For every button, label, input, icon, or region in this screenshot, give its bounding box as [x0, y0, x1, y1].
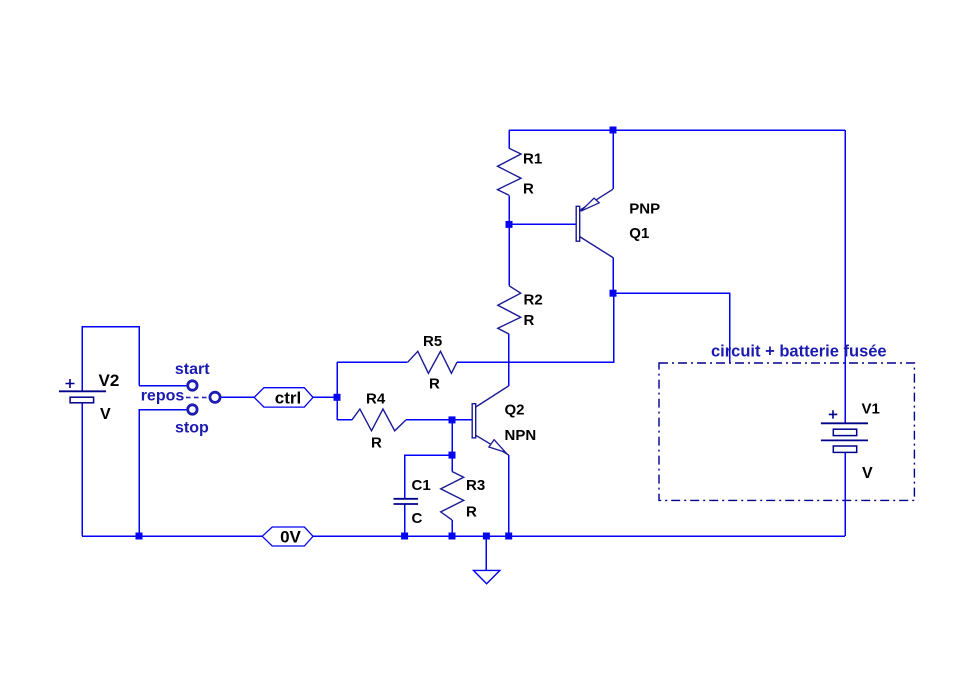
wire C1 top branch: [405, 455, 452, 498]
label Q2 type NPN: [505, 427, 537, 444]
ground: [474, 570, 500, 583]
wire start stub: [139, 385, 188, 387]
wire ctrl flag to node: [313, 396, 337, 398]
label R1: [523, 151, 542, 168]
svg-text:Q1: Q1: [629, 225, 649, 242]
wire R1 bottom to base node: [508, 195, 510, 224]
wire R3 bottom: [451, 520, 453, 536]
resistor R4: [352, 409, 406, 431]
svg-text:start: start: [175, 361, 210, 378]
switch contact stop: [188, 405, 197, 414]
junction C1-R3 node: [449, 452, 456, 459]
transistor Q1: [576, 189, 613, 257]
svg-text:R4: R4: [366, 391, 386, 408]
wire R4 left: [337, 419, 352, 421]
label repos: [141, 388, 185, 405]
wire V2 bottom: [81, 403, 83, 536]
junction rail-stop branch: [136, 533, 143, 540]
svg-text:R: R: [524, 312, 535, 329]
battery V1: [821, 410, 868, 452]
wire Q2 emitter vertical: [508, 455, 510, 536]
svg-text:C: C: [412, 510, 423, 527]
wire R4 right to Q2 base: [406, 419, 472, 421]
label R5 value R: [429, 376, 440, 393]
resistor R5: [408, 351, 457, 373]
svg-text:V: V: [862, 465, 873, 482]
resistor R2: [498, 286, 521, 334]
wire ctrl node vertical: [336, 362, 338, 420]
svg-text:R5: R5: [423, 333, 442, 350]
wire right rail down to V1: [844, 130, 846, 423]
label R3 value R: [466, 504, 477, 521]
svg-text:V1: V1: [862, 401, 880, 418]
svg-text:stop: stop: [175, 420, 209, 437]
wire V2 top: [82, 327, 139, 392]
wire ground stub: [485, 536, 487, 570]
label R3: [466, 477, 485, 494]
transistor Q2: [472, 386, 509, 455]
net flag ctrl: [254, 388, 313, 408]
svg-text:ctrl: ctrl: [275, 389, 301, 408]
svg-text:C1: C1: [412, 477, 431, 494]
switch actuator dashed leader: [186, 397, 209, 399]
svg-text:repos: repos: [141, 388, 185, 405]
wire R3 top: [451, 455, 453, 471]
label C1: [412, 477, 431, 494]
net flag 0V: [262, 527, 313, 547]
label R5: [423, 333, 442, 350]
svg-text:NPN: NPN: [505, 427, 537, 444]
capacitor C1: [394, 499, 419, 504]
svg-text:0V: 0V: [280, 528, 301, 547]
wire R2 top: [508, 224, 510, 285]
wire stop branch down to rail: [139, 410, 188, 537]
junction node top rail: [610, 127, 617, 134]
svg-text:R: R: [429, 376, 440, 393]
svg-text:R: R: [466, 504, 477, 521]
label R4 value R: [371, 435, 382, 452]
svg-text:R3: R3: [466, 477, 485, 494]
label V2: [99, 371, 120, 390]
label Q2: [505, 402, 525, 419]
junction rail-Q2 emitter: [505, 533, 512, 540]
svg-text:R2: R2: [524, 292, 543, 309]
junction rail-ground: [483, 533, 490, 540]
label Q1 type PNP: [629, 201, 660, 218]
svg-text:R1: R1: [523, 151, 542, 168]
wire Q2 base down: [451, 420, 453, 455]
battery V2: [59, 379, 106, 403]
label R2 value R: [524, 312, 535, 329]
label start: [175, 361, 210, 378]
wire Q1 collector vertical: [612, 258, 614, 294]
svg-text:circuit + batterie fusée: circuit + batterie fusée: [711, 343, 887, 361]
wire V1 bottom to rail corner: [844, 452, 846, 536]
wire switch common to ctrl flag: [220, 396, 254, 398]
svg-text:V2: V2: [99, 371, 120, 390]
svg-text:R: R: [523, 181, 534, 198]
wire Q1 base stub: [509, 223, 576, 225]
label stop: [175, 420, 209, 437]
svg-text:Q2: Q2: [505, 402, 525, 419]
svg-text:PNP: PNP: [629, 201, 660, 218]
label V2 value V: [100, 406, 111, 423]
junction Q2 base node: [449, 416, 456, 423]
label circuit + batterie fusee: [711, 343, 887, 361]
junction ctrl node: [334, 394, 341, 401]
label C1 value C: [412, 510, 423, 527]
resistor R1: [498, 148, 522, 195]
label Q1: [629, 225, 649, 242]
wire C1 bottom: [404, 504, 406, 536]
label R1 value R: [523, 181, 534, 198]
junction rail-R3: [449, 533, 456, 540]
wire R5 left: [337, 361, 408, 363]
label R2: [524, 292, 543, 309]
wire Q1 emitter vertical: [612, 130, 614, 189]
wire bottom 0V rail: [82, 535, 845, 537]
label V1: [862, 401, 880, 418]
switch common pole: [210, 392, 220, 402]
junction rail-C1: [401, 533, 408, 540]
label R4: [366, 391, 386, 408]
wire R1 top: [508, 130, 510, 148]
wire R2 bottom to Q2 collector: [508, 334, 510, 386]
svg-text:R: R: [371, 435, 382, 452]
junction Q1 collector node: [610, 290, 617, 297]
wire top rail: [509, 129, 845, 131]
switch contact start: [188, 381, 197, 390]
label V1 value V: [862, 465, 873, 482]
svg-text:V: V: [100, 406, 111, 423]
wire R5 right to Q1 collector node: [457, 293, 614, 362]
fuse battery circuit box: [659, 363, 914, 500]
junction Q1 base node: [506, 221, 513, 228]
wire Q1 collector node to fuse box: [613, 293, 730, 363]
resistor R3: [441, 472, 464, 520]
